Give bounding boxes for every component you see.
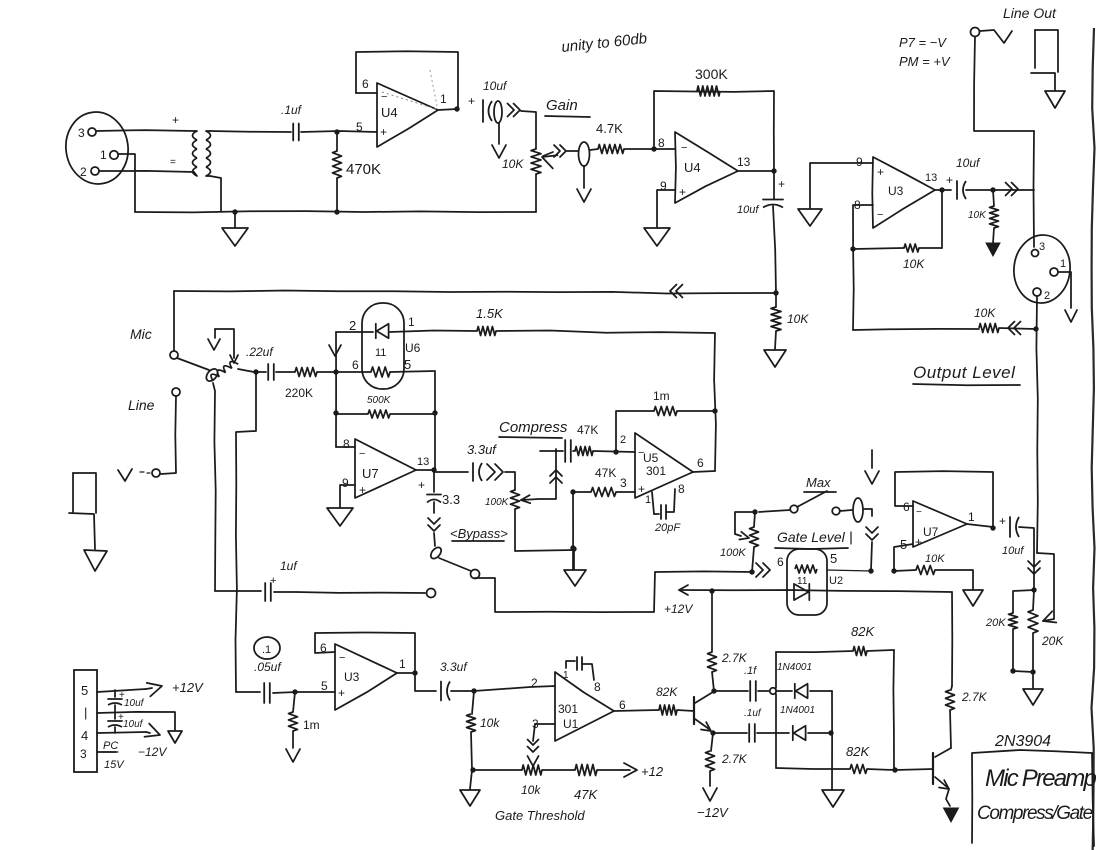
svg-text:3.3uf: 3.3uf xyxy=(467,442,497,457)
svg-text:Compress/Gate: Compress/Gate xyxy=(977,803,1093,824)
svg-text:301: 301 xyxy=(558,702,578,716)
svg-text:+: + xyxy=(270,575,276,587)
svg-text:|: | xyxy=(84,705,87,720)
svg-text:5: 5 xyxy=(404,357,411,372)
svg-text:47K: 47K xyxy=(595,466,616,480)
svg-text:6: 6 xyxy=(903,500,910,514)
svg-text:20K: 20K xyxy=(985,617,1006,629)
svg-text:1uf: 1uf xyxy=(280,559,298,573)
svg-text:1: 1 xyxy=(399,657,406,671)
svg-text:6: 6 xyxy=(777,555,784,569)
svg-text:Line: Line xyxy=(128,397,155,413)
svg-text:U2: U2 xyxy=(829,575,843,587)
svg-text:+: + xyxy=(172,113,179,127)
svg-text:10K: 10K xyxy=(903,257,925,271)
svg-text:5: 5 xyxy=(830,551,837,566)
svg-text:Output Level: Output Level xyxy=(913,363,1016,382)
svg-text:1: 1 xyxy=(645,494,651,506)
svg-text:+: + xyxy=(915,535,922,549)
svg-text:2: 2 xyxy=(531,676,538,690)
svg-text:Mic: Mic xyxy=(130,326,152,342)
svg-text:−: − xyxy=(877,209,883,221)
svg-text:Line Out: Line Out xyxy=(1003,5,1057,21)
svg-text:Gate Threshold: Gate Threshold xyxy=(495,808,585,823)
svg-text:+: + xyxy=(877,165,884,179)
svg-text:4.7K: 4.7K xyxy=(596,121,623,136)
svg-text:13: 13 xyxy=(417,456,429,468)
svg-text:13: 13 xyxy=(737,155,751,169)
svg-text:47K: 47K xyxy=(574,787,598,802)
svg-text:U3: U3 xyxy=(344,670,360,684)
svg-text:Compress: Compress xyxy=(499,419,568,436)
svg-text:Gain: Gain xyxy=(546,97,578,114)
svg-text:2: 2 xyxy=(620,434,626,446)
svg-text:82K: 82K xyxy=(846,744,870,759)
svg-text:PM = +V: PM = +V xyxy=(899,54,951,69)
svg-text:1N4001: 1N4001 xyxy=(777,662,812,673)
svg-text:8: 8 xyxy=(594,680,601,694)
svg-text:+: + xyxy=(338,686,345,700)
svg-text:<Bypass>: <Bypass> xyxy=(450,526,508,541)
svg-text:1: 1 xyxy=(100,148,107,162)
svg-text:−12V: −12V xyxy=(138,745,167,759)
svg-text:47K: 47K xyxy=(577,423,598,437)
svg-text:220K: 220K xyxy=(285,386,313,400)
svg-text:3: 3 xyxy=(78,126,85,140)
svg-text:9: 9 xyxy=(856,155,863,169)
svg-text:P7 = −V: P7 = −V xyxy=(899,35,947,50)
svg-text:3.3: 3.3 xyxy=(442,492,460,507)
svg-text:10K: 10K xyxy=(974,306,996,320)
svg-text:−: − xyxy=(381,91,387,103)
svg-text:+12V: +12V xyxy=(172,680,204,695)
svg-text:13: 13 xyxy=(925,172,937,184)
svg-text:.1uf: .1uf xyxy=(744,708,762,719)
svg-text:9: 9 xyxy=(660,179,667,193)
svg-text:8: 8 xyxy=(343,437,350,451)
svg-text:+12V: +12V xyxy=(664,602,693,616)
svg-text:.05uf: .05uf xyxy=(254,660,282,674)
svg-text:10uf: 10uf xyxy=(124,698,145,709)
svg-text:2: 2 xyxy=(1044,290,1050,302)
svg-text:+12: +12 xyxy=(641,764,664,779)
svg-text:U1: U1 xyxy=(563,717,579,731)
svg-text:2N3904: 2N3904 xyxy=(994,733,1051,750)
svg-text:1m: 1m xyxy=(653,389,670,403)
svg-text:U7: U7 xyxy=(362,466,379,481)
svg-text:10uf: 10uf xyxy=(1002,545,1024,557)
svg-text:.22uf: .22uf xyxy=(246,345,274,359)
svg-text:10K: 10K xyxy=(502,157,524,171)
svg-text:1: 1 xyxy=(408,315,415,329)
svg-text:−: − xyxy=(916,507,922,518)
svg-text:−12V: −12V xyxy=(697,805,729,820)
svg-text:6: 6 xyxy=(352,358,359,372)
svg-text:20K: 20K xyxy=(1041,634,1064,648)
svg-text:+: + xyxy=(638,482,645,496)
svg-text:+: + xyxy=(380,125,387,139)
svg-text:−: − xyxy=(339,652,345,664)
svg-text:U6: U6 xyxy=(405,341,421,355)
svg-text:−: − xyxy=(681,142,687,154)
svg-text:+: + xyxy=(778,177,785,191)
svg-text:1m: 1m xyxy=(303,718,320,732)
svg-text:301: 301 xyxy=(646,464,666,478)
svg-text:1N4001: 1N4001 xyxy=(780,705,815,716)
svg-text:10k: 10k xyxy=(521,783,541,797)
svg-text:11: 11 xyxy=(797,576,808,587)
svg-text:470K: 470K xyxy=(346,161,381,178)
svg-text:1.5K: 1.5K xyxy=(476,306,504,321)
svg-text:11: 11 xyxy=(375,347,386,359)
svg-text:6: 6 xyxy=(697,456,704,470)
svg-text:3.3uf: 3.3uf xyxy=(440,660,468,674)
svg-text:100K: 100K xyxy=(720,547,746,559)
svg-text:Mic Preamp: Mic Preamp xyxy=(985,765,1096,792)
svg-text:10K: 10K xyxy=(968,210,987,221)
svg-text:2: 2 xyxy=(349,318,356,333)
svg-text:4: 4 xyxy=(81,728,88,743)
svg-text:2.7K: 2.7K xyxy=(721,651,748,665)
svg-text:8: 8 xyxy=(678,482,685,496)
svg-text:+: + xyxy=(999,514,1006,528)
svg-text:3: 3 xyxy=(80,747,87,761)
svg-text:5: 5 xyxy=(321,679,328,693)
svg-text:15V: 15V xyxy=(104,759,125,771)
svg-text:5: 5 xyxy=(81,683,88,698)
svg-text:U4: U4 xyxy=(684,160,701,175)
svg-text:82K: 82K xyxy=(656,685,678,699)
svg-text:2: 2 xyxy=(80,165,87,179)
svg-text:+: + xyxy=(468,94,475,108)
svg-text:1: 1 xyxy=(440,92,447,106)
svg-text:Gate Level: Gate Level xyxy=(777,529,846,545)
svg-text:1: 1 xyxy=(968,510,975,524)
svg-text:3: 3 xyxy=(620,476,627,490)
svg-text:6: 6 xyxy=(362,77,369,91)
svg-text:9: 9 xyxy=(342,476,349,490)
svg-text:U7: U7 xyxy=(923,525,939,539)
svg-text:10uf: 10uf xyxy=(956,156,981,170)
svg-text:100K: 100K xyxy=(485,497,510,508)
svg-text:Max: Max xyxy=(806,475,831,490)
svg-text:8: 8 xyxy=(658,136,665,150)
svg-text:10uf: 10uf xyxy=(123,719,144,730)
svg-text:.1f: .1f xyxy=(744,665,757,677)
svg-text:10K: 10K xyxy=(925,553,945,565)
svg-text:2.7K: 2.7K xyxy=(721,752,748,766)
svg-text:500K: 500K xyxy=(367,395,392,406)
svg-text:=: = xyxy=(170,157,176,168)
svg-text:2.7K: 2.7K xyxy=(961,690,988,704)
svg-text:300K: 300K xyxy=(695,66,728,82)
svg-text:10uf: 10uf xyxy=(483,79,508,93)
svg-text:1: 1 xyxy=(1060,258,1066,270)
svg-text:+: + xyxy=(679,185,686,199)
svg-text:U5: U5 xyxy=(643,451,659,465)
svg-text:+: + xyxy=(946,173,953,187)
svg-text:−: − xyxy=(359,448,365,460)
svg-text:U4: U4 xyxy=(381,105,398,120)
svg-text:.1: .1 xyxy=(262,644,271,656)
svg-text:1: 1 xyxy=(563,670,569,681)
svg-text:10K: 10K xyxy=(787,312,809,326)
svg-text:5: 5 xyxy=(356,120,363,134)
svg-text:3: 3 xyxy=(1039,241,1045,253)
svg-text:+: + xyxy=(359,483,366,497)
svg-text:20pF: 20pF xyxy=(654,522,681,534)
svg-text:+: + xyxy=(418,478,425,492)
svg-text:10k: 10k xyxy=(480,716,500,730)
svg-text:82K: 82K xyxy=(851,624,875,639)
svg-text:.1uf: .1uf xyxy=(281,103,303,117)
svg-text:10uf: 10uf xyxy=(737,204,759,216)
svg-text:PC: PC xyxy=(103,740,118,752)
svg-text:U3: U3 xyxy=(888,184,904,198)
